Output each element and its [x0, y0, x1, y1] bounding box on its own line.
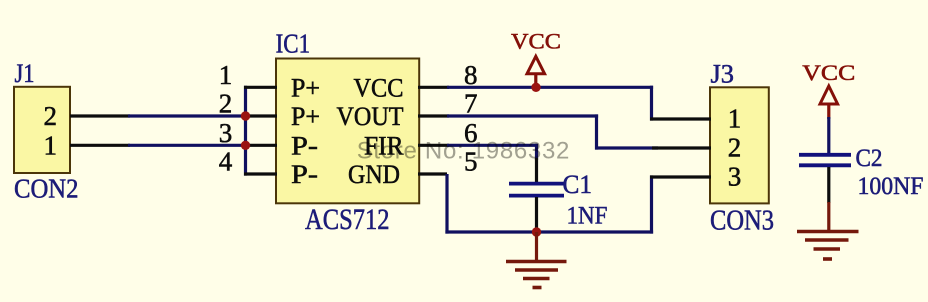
capacitor C2 — [799, 117, 851, 203]
IC1 pin 7 stub — [418, 114, 449, 117]
power VCC symbol at IC1 pin8 — [511, 29, 561, 88]
wire J1 pin2 to node A — [128, 114, 247, 117]
svg-text:100NF: 100NF — [858, 173, 924, 200]
pin number 5 — [464, 147, 478, 177]
svg-text:J1: J1 — [15, 59, 35, 88]
svg-text:1NF: 1NF — [567, 203, 608, 230]
pin name P- (pin3) — [291, 131, 318, 160]
svg-text:7: 7 — [464, 89, 478, 119]
svg-text:CON3: CON3 — [710, 206, 774, 237]
svg-text:2: 2 — [728, 132, 742, 162]
J1 designator label — [15, 59, 35, 88]
svg-text:2: 2 — [44, 101, 58, 131]
J3 designator label — [711, 59, 735, 88]
pin name GND (pin5) — [348, 160, 400, 189]
svg-text:3: 3 — [219, 118, 233, 148]
pin name P+ (pin1) — [291, 73, 320, 102]
J3 pin 2 stub — [652, 146, 711, 149]
junction ground bus dot — [532, 227, 541, 236]
svg-text:VOUT: VOUT — [337, 102, 404, 131]
svg-text:C1: C1 — [563, 170, 593, 199]
watermark Store No: 1986332 — [357, 138, 570, 165]
C2 value label 100NF — [858, 173, 924, 200]
wire VCC bend down to J3 pin1 — [650, 86, 653, 121]
pin name VCC (pin8) — [354, 73, 404, 102]
wire VOUT bend down to J3 pin2 — [595, 114, 598, 149]
J3 pin number 3 — [728, 161, 742, 191]
IC1 pin 4 stub — [244, 172, 277, 175]
svg-text:VCC: VCC — [354, 73, 404, 102]
IC1 pin 3 stub — [244, 144, 277, 147]
J3 pin number 1 — [728, 103, 742, 133]
pin number 7 — [464, 89, 478, 119]
pin number 3 — [219, 118, 233, 148]
wire VOUT net pin7 to bend — [447, 114, 598, 117]
connector J1 — [14, 87, 70, 173]
J3 value label CON3 — [710, 206, 774, 237]
svg-text:4: 4 — [219, 147, 233, 177]
wire ground bus horizontal — [445, 230, 653, 233]
svg-text:P-: P- — [291, 160, 318, 189]
C1 value label 1NF — [567, 203, 608, 230]
svg-text:1: 1 — [728, 103, 742, 133]
wire ground bus up to J3 pin3 — [650, 175, 653, 233]
capacitor C1 — [509, 144, 564, 231]
pin number 6 — [464, 118, 478, 148]
IC1 value label ACS712 — [305, 203, 390, 236]
connector J3 — [710, 87, 769, 203]
svg-text:Store No: 1986332: Store No: 1986332 — [357, 138, 570, 165]
IC1 designator label — [276, 29, 311, 59]
junction VCC net dot — [531, 83, 540, 92]
power VCC symbol at C2 — [802, 60, 855, 119]
wire FIR net pin6 to C1 — [447, 144, 538, 147]
pin name VOUT (pin7) — [337, 102, 404, 131]
wire VCC net pin8 to bend — [447, 86, 653, 89]
wire GND net pin5 down — [445, 174, 448, 234]
svg-text:8: 8 — [464, 60, 478, 90]
J3 pin 1 stub — [650, 117, 711, 120]
IC1 pin 1 stub — [244, 86, 277, 89]
pin number 8 — [464, 60, 478, 90]
J1 pin 2 stub — [70, 114, 130, 117]
svg-text:P+: P+ — [291, 73, 320, 102]
svg-text:C2: C2 — [856, 145, 883, 172]
IC1 pin 2 stub — [244, 114, 277, 117]
svg-text:1: 1 — [219, 60, 233, 90]
J1 pin 1 stub — [70, 144, 130, 147]
pin number 1 — [219, 60, 233, 90]
ground symbol at C1 — [506, 232, 567, 288]
C2 designator label — [856, 145, 883, 172]
svg-text:VCC: VCC — [511, 29, 561, 54]
J3 pin number 2 — [728, 132, 742, 162]
svg-text:3: 3 — [728, 161, 742, 191]
ground symbol at C2 — [797, 202, 859, 259]
svg-text:1: 1 — [44, 130, 58, 160]
wire J1 pin1 to node B — [128, 144, 247, 147]
pin name P+ (pin2) — [291, 102, 320, 131]
IC1 pin 6 stub — [418, 144, 449, 147]
svg-text:P-: P- — [291, 131, 318, 160]
pin name P- (pin4) — [291, 160, 318, 189]
pin number 4 — [219, 147, 233, 177]
IC1 pin 5 stub — [418, 172, 447, 175]
J3 pin 3 stub — [650, 175, 711, 178]
wire vertical bus left of IC1 — [244, 86, 247, 176]
J1 pin number 1 — [44, 130, 58, 160]
junction node B — [241, 141, 250, 150]
junction node A — [241, 111, 250, 120]
J1 value label CON2 — [14, 174, 79, 204]
IC1 pin 8 stub — [418, 86, 449, 89]
svg-text:CON2: CON2 — [14, 174, 79, 204]
svg-text:ACS712: ACS712 — [305, 203, 390, 236]
svg-text:J3: J3 — [711, 59, 735, 88]
wire VOUT horizontal to J3 pin2 — [595, 146, 658, 149]
IC U1 : IC1 box body — [276, 59, 419, 204]
svg-text:VCC: VCC — [802, 60, 855, 85]
svg-text:P+: P+ — [291, 102, 320, 131]
J1 pin number 2 — [44, 101, 58, 131]
pin name FIR (pin6) — [364, 131, 404, 160]
svg-text:2: 2 — [219, 89, 233, 119]
pin number 2 — [219, 89, 233, 119]
svg-text:IC1: IC1 — [276, 29, 311, 59]
C1 designator label — [563, 170, 593, 199]
